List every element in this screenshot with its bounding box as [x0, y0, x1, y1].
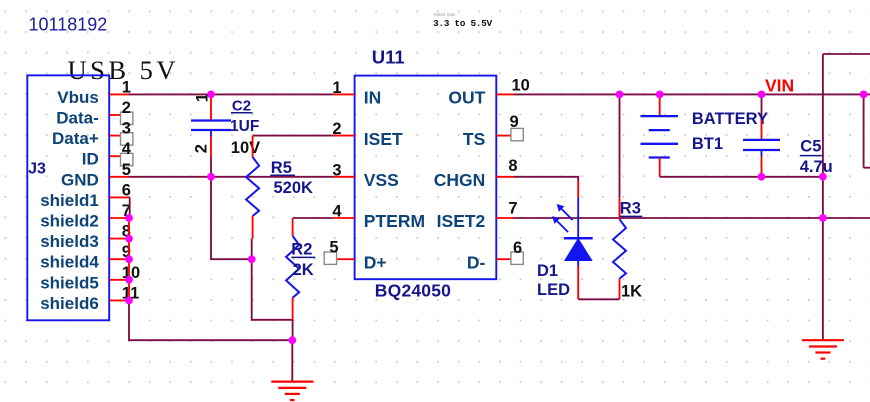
- capacitor C5 bottom lead: [761, 157, 763, 173]
- svg-text:BQ24050: BQ24050: [375, 280, 451, 300]
- svg-text:D-: D-: [467, 252, 486, 272]
- battery BT1 plate long 1: [641, 115, 679, 117]
- wire ISET2 net: [514, 217, 870, 219]
- J3 pin 8 stub: [110, 238, 130, 240]
- svg-text:4: 4: [332, 203, 342, 221]
- svg-text:3: 3: [122, 120, 131, 138]
- svg-text:10V: 10V: [231, 139, 260, 157]
- resistor R3 zigzag: [613, 219, 626, 278]
- svg-text:520K: 520K: [274, 179, 314, 197]
- wire shield1 jog down: [129, 197, 131, 218]
- wire CHGN net to LED: [514, 177, 579, 181]
- resistor R3 bottom lead: [619, 279, 621, 300]
- LED D1 arrow 1: [561, 208, 573, 220]
- U11 pin 2 stub: [334, 135, 355, 137]
- LED D1 triangle: [565, 239, 592, 261]
- U11 pin 6 stub: [496, 258, 511, 260]
- svg-text:2: 2: [122, 99, 131, 117]
- capacitor C5 plates: [743, 139, 780, 141]
- wire OUT net VIN rail: [514, 93, 870, 95]
- svg-text:shield4: shield4: [40, 253, 99, 272]
- resistor R5 bottom lead: [252, 216, 254, 239]
- wire ground net staircase: [211, 177, 293, 340]
- resistor R3 top lead: [619, 197, 621, 219]
- svg-text:4.7u: 4.7u: [800, 158, 833, 176]
- svg-text:J3: J3: [28, 161, 46, 178]
- wire shield bus vertical: [128, 218, 130, 300]
- svg-text:GND: GND: [61, 170, 99, 189]
- svg-text:1UF: 1UF: [230, 118, 259, 135]
- junction dots: [207, 91, 215, 99]
- capacitor C2 top lead: [210, 95, 212, 121]
- J3 pin 11 stub: [110, 299, 130, 301]
- LED D1 body line: [577, 198, 579, 267]
- svg-text:shield5: shield5: [40, 273, 99, 292]
- battery BT1 plate short 2: [649, 156, 670, 158]
- svg-text:R3: R3: [620, 200, 641, 218]
- svg-text:TS: TS: [463, 129, 485, 149]
- resistor R5 zigzag: [246, 157, 259, 216]
- wire right branch vertical: [863, 94, 865, 167]
- wire GND net (USB pin5 to U11 VSS): [129, 176, 334, 178]
- svg-text:Data-: Data-: [56, 109, 99, 128]
- U11 pin 1 stub: [334, 93, 355, 95]
- svg-text:8: 8: [508, 157, 517, 175]
- U11 pin 4 stub: [334, 217, 355, 219]
- U11 pin 5 stub: [336, 258, 354, 260]
- svg-text:D1: D1: [537, 262, 558, 280]
- J3 pin 1 stub: [110, 93, 130, 95]
- svg-text:6: 6: [122, 181, 131, 199]
- U11 pin 6 no-connect square: [511, 252, 523, 264]
- U11 pin 10 stub: [496, 93, 514, 95]
- svg-text:10: 10: [512, 77, 530, 95]
- svg-text:ISET2: ISET2: [437, 211, 486, 231]
- svg-text:R5: R5: [271, 159, 292, 177]
- svg-text:2: 2: [332, 120, 341, 138]
- svg-text:7: 7: [508, 199, 517, 217]
- wire LED bottom to R3 bottom: [578, 298, 619, 300]
- svg-text:4: 4: [122, 140, 132, 158]
- svg-text:1K: 1K: [621, 282, 642, 300]
- svg-text:6: 6: [513, 239, 522, 257]
- LED D1 arrow 2: [557, 221, 569, 233]
- svg-text:1: 1: [332, 79, 341, 97]
- wire right vertical to ground: [822, 54, 824, 340]
- svg-text:shield2: shield2: [40, 212, 99, 231]
- wire C5 bottom net: [761, 173, 763, 177]
- wire ground stem: [291, 340, 293, 381]
- svg-text:3: 3: [332, 161, 341, 179]
- ground symbol right: [802, 339, 844, 341]
- J3 pin 2 stub: [110, 114, 121, 116]
- capacitor C5 top lead: [761, 120, 763, 140]
- J3 pin 3 no-connect square: [121, 133, 133, 145]
- capacitor C2 bottom lead: [210, 137, 212, 158]
- svg-text:LED: LED: [537, 281, 570, 299]
- J3 pin 10 stub: [110, 279, 130, 281]
- U11 pin 9 no-connect square: [511, 128, 523, 140]
- resistor R5 top lead: [252, 136, 254, 157]
- svg-text:R2: R2: [291, 240, 312, 258]
- svg-text:2: 2: [193, 144, 211, 153]
- wire shield bus to bottom: [129, 300, 292, 340]
- svg-text:Rated max: Rated max: [434, 12, 457, 17]
- svg-text:shield6: shield6: [40, 294, 99, 313]
- svg-text:VSS: VSS: [364, 170, 399, 190]
- wire right branch to edge: [864, 167, 870, 169]
- svg-text:PTERM: PTERM: [364, 211, 425, 231]
- svg-text:shield1: shield1: [40, 191, 99, 210]
- capacitor C2 plates: [191, 119, 231, 121]
- svg-text:2K: 2K: [293, 261, 314, 279]
- op-amp U11 body: [355, 76, 497, 280]
- svg-text:CHGN: CHGN: [434, 170, 486, 190]
- svg-text:VIN: VIN: [765, 75, 794, 95]
- connector J3 body: [27, 75, 109, 320]
- LED D1 cathode bar: [564, 237, 593, 240]
- svg-text:Vbus: Vbus: [57, 88, 99, 107]
- svg-text:BATTERY: BATTERY: [692, 110, 768, 128]
- resistor R2 top lead: [292, 218, 294, 236]
- wire Vbus net (USB pin1 to U11 IN): [129, 93, 334, 95]
- svg-text:10118192: 10118192: [29, 15, 108, 35]
- wire BT1 bottom net: [660, 176, 823, 178]
- J3 pin 3 stub: [110, 135, 121, 137]
- svg-text:3.3 to 5.5V: 3.3 to 5.5V: [433, 18, 493, 29]
- svg-text:5: 5: [329, 239, 338, 257]
- U11 pin 3 stub: [334, 176, 355, 178]
- svg-text:shield3: shield3: [40, 232, 99, 251]
- svg-text:IN: IN: [364, 88, 382, 108]
- wire PTERM net (R2 to U11 pin4): [293, 217, 334, 219]
- J3 pin 6 stub: [110, 196, 130, 198]
- LED D1 bottom lead: [577, 266, 579, 299]
- LED D1 top lead: [577, 181, 579, 198]
- svg-text:BT1: BT1: [692, 135, 723, 153]
- svg-text:C5: C5: [800, 137, 821, 155]
- ground symbol left: [271, 381, 313, 383]
- U11 pin 9 stub: [496, 135, 511, 137]
- svg-text:Data+: Data+: [52, 129, 99, 148]
- svg-text:OUT: OUT: [448, 88, 485, 108]
- svg-text:ID: ID: [82, 150, 99, 169]
- svg-text:ISET: ISET: [364, 129, 403, 149]
- J3 pin 5 stub: [110, 176, 130, 178]
- U11 pin 5 no-connect square: [324, 252, 336, 264]
- svg-text:9: 9: [510, 113, 519, 131]
- wire ISET net (R5 to U11 pin2): [253, 135, 334, 137]
- battery BT1 top lead: [659, 94, 661, 116]
- J3 pin 9 stub: [110, 258, 130, 260]
- U11 pin 8 stub: [496, 176, 514, 178]
- wire VIN to R3 top: [619, 94, 621, 197]
- resistor R2 zigzag: [286, 236, 299, 298]
- J3 pin 2 no-connect square: [121, 112, 133, 124]
- battery BT1 plate short 1: [649, 129, 670, 131]
- U11 pin 7 stub: [496, 217, 514, 219]
- resistor R2 bottom lead: [292, 298, 294, 320]
- wire top right corner: [823, 53, 870, 55]
- J3 pin 4 no-connect square: [121, 153, 133, 165]
- battery BT1 plate long 2: [641, 143, 679, 145]
- battery BT1 bottom lead: [659, 158, 661, 177]
- svg-text:U11: U11: [372, 47, 405, 68]
- J3 pin 4 stub: [110, 155, 121, 157]
- wire C5 top net: [761, 94, 763, 120]
- svg-text:D+: D+: [364, 252, 387, 272]
- J3 pin 7 stub: [110, 217, 130, 219]
